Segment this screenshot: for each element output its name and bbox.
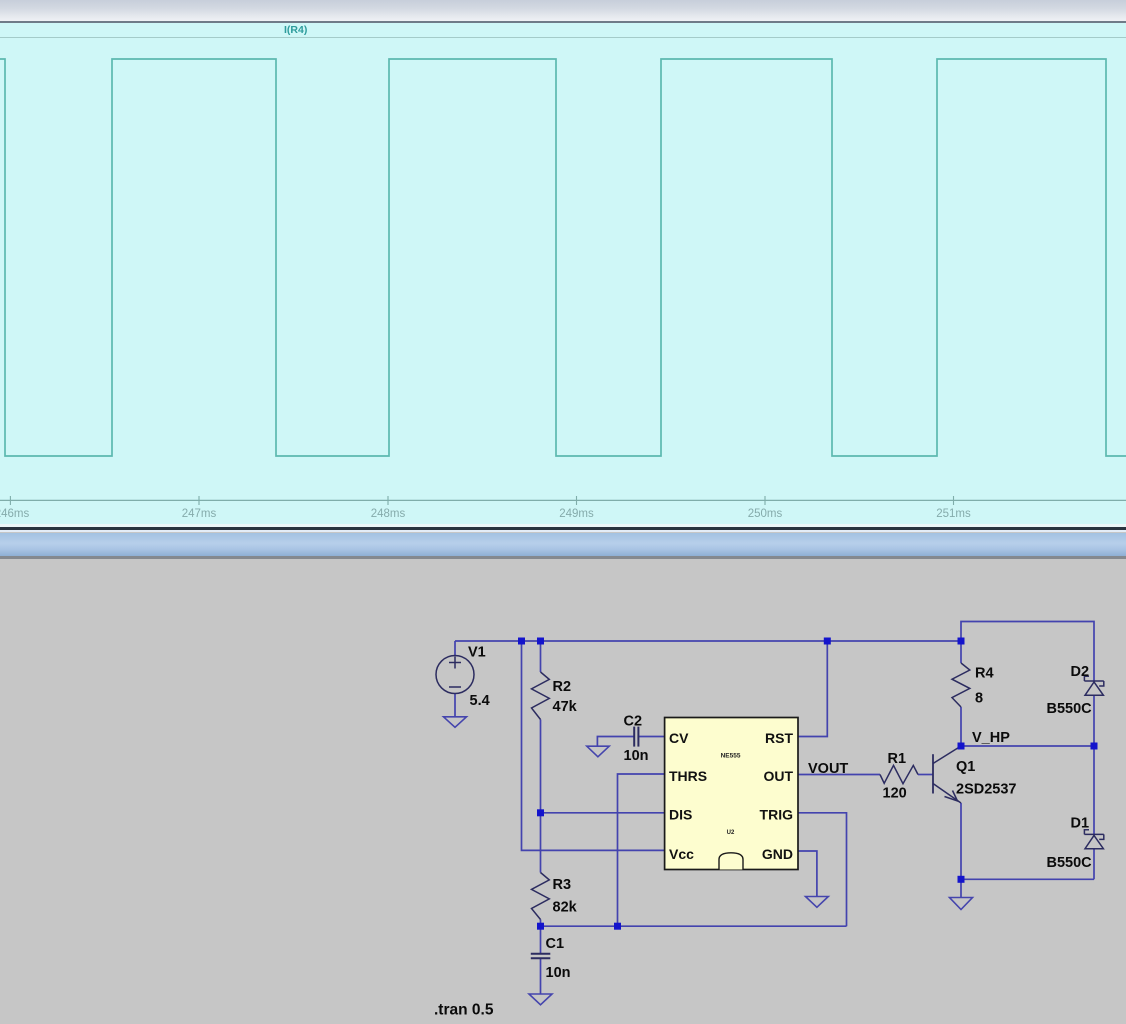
svg-text:B550C: B550C — [1047, 855, 1093, 871]
capacitor C1 — [531, 953, 551, 955]
wire: bottom right rail — [961, 878, 1094, 880]
wire: bottom rail THRS/TRIG — [541, 925, 847, 927]
toolbar dark edge line — [0, 21, 1126, 23]
pane splitter: blue gradient band — [0, 533, 1126, 556]
svg-text:D1: D1 — [1071, 816, 1090, 832]
ground (below V1) — [444, 717, 467, 728]
node RST/rail — [824, 638, 831, 645]
svg-text:10n: 10n — [546, 965, 571, 981]
node junction squares — [518, 638, 1098, 930]
wire: emitter ground stem — [960, 879, 962, 897]
wire: R2 top lead — [540, 641, 542, 672]
resistor R3 — [532, 873, 550, 920]
svg-text:8: 8 — [975, 691, 983, 707]
wire: THRS vertical — [618, 774, 666, 926]
legend separator line — [0, 37, 1126, 38]
pane splitter: dark navy line — [0, 527, 1126, 530]
node V1/rail — [518, 638, 525, 645]
diode D2 — [1084, 676, 1103, 695]
svg-text:C2: C2 — [624, 714, 643, 730]
wire: TRIG wire — [798, 813, 847, 926]
svg-text:CV: CV — [669, 730, 689, 746]
schematic pane background — [0, 559, 1126, 1024]
schematic text labels — [434, 645, 1092, 1019]
wire: D2 bottom lead — [1093, 695, 1095, 746]
svg-text:RST: RST — [765, 730, 793, 746]
svg-text:R4: R4 — [975, 666, 994, 682]
svg-text:248ms: 248ms — [371, 508, 406, 520]
svg-text:NE555: NE555 — [721, 752, 741, 759]
node DIS/R2 — [537, 809, 544, 816]
wire: RST wire — [798, 641, 827, 737]
svg-text:250ms: 250ms — [748, 508, 783, 520]
ground (below C1) — [529, 994, 552, 1005]
capacitor C2 — [633, 727, 635, 747]
svg-text:C1: C1 — [546, 936, 565, 952]
svg-text:Vcc: Vcc — [669, 846, 694, 862]
svg-text:10n: 10n — [624, 748, 649, 764]
svg-text:THRS: THRS — [669, 768, 707, 784]
node THRS/bottom rail — [614, 923, 621, 930]
wire: top rail V1 to R4 — [455, 640, 961, 642]
node R3/C1 bottom rail — [537, 923, 544, 930]
wire: OUT wire to R1 — [798, 774, 880, 776]
chip pin labels — [669, 730, 793, 862]
svg-text:U2: U2 — [727, 830, 735, 836]
transistor Q1 — [932, 754, 934, 793]
wire: R4 bottom lead to V_HP — [960, 707, 962, 746]
svg-text:R1: R1 — [888, 751, 907, 767]
wire: D1 top lead — [1093, 746, 1095, 835]
wire: R3 top lead — [540, 813, 542, 873]
wire: V1 top lead — [454, 641, 456, 656]
svg-text:120: 120 — [883, 786, 907, 802]
svg-text:I(R4): I(R4) — [284, 24, 307, 36]
pane splitter: light line — [0, 524, 1126, 527]
wire: C2 left plate to ground — [597, 737, 634, 747]
svg-text:OUT: OUT — [763, 768, 793, 784]
wire: GND pin wire — [798, 851, 817, 897]
wire: V1 bottom lead — [454, 693, 456, 717]
svg-text:TRIG: TRIG — [760, 807, 794, 823]
node R2/rail — [537, 638, 544, 645]
svg-text:251ms: 251ms — [936, 508, 971, 520]
svg-text:DIS: DIS — [669, 807, 692, 823]
svg-text:246ms: 246ms — [0, 508, 30, 520]
ground (below GND pin) — [806, 897, 829, 908]
svg-text:Q1: Q1 — [956, 759, 975, 775]
svg-text:47k: 47k — [553, 699, 578, 715]
svg-text:GND: GND — [762, 846, 793, 862]
svg-text:2SD2537: 2SD2537 — [956, 782, 1016, 798]
wire: R4 top lead — [960, 641, 962, 663]
svg-text:V_HP: V_HP — [972, 730, 1010, 746]
x axis labels — [0, 508, 971, 520]
node V_HP left — [958, 743, 965, 750]
pane splitter: light blue line — [0, 530, 1126, 533]
IC U2 NE555 body — [665, 718, 798, 870]
ground (below Q1 emitter) — [950, 898, 973, 910]
node R4/rail — [958, 638, 965, 645]
diode D1 — [1084, 830, 1103, 849]
waveform pane background — [0, 23, 1126, 525]
wire: R1 right lead to Q1 base — [918, 774, 933, 776]
svg-text:247ms: 247ms — [182, 508, 217, 520]
resistor R1 — [880, 765, 918, 783]
wire: DIS pin wire — [541, 812, 666, 814]
wire: C1 bottom lead — [540, 959, 542, 994]
node V_HP right — [1091, 743, 1098, 750]
wire: Q1 emitter vertical — [960, 803, 962, 879]
node emitter/bottom right rail — [958, 876, 965, 883]
x axis ticks — [10, 496, 953, 505]
wire: vertical Vcc feed from top rail — [522, 641, 666, 850]
svg-text:R3: R3 — [553, 877, 572, 893]
wire: V_HP rail — [961, 745, 1094, 747]
waveform trace I(R4) — [0, 59, 1126, 456]
svg-text:VOUT: VOUT — [808, 761, 848, 777]
svg-text:5.4: 5.4 — [470, 693, 490, 709]
svg-text:249ms: 249ms — [559, 508, 594, 520]
resistor R4 — [952, 663, 970, 707]
x axis line — [0, 499, 1126, 501]
svg-text:B550C: B550C — [1047, 701, 1093, 717]
wire: D1 bottom lead — [1093, 848, 1095, 879]
wire: top right link to D2 — [961, 622, 1094, 683]
resistor R2 — [532, 672, 550, 720]
svg-text:V1: V1 — [468, 645, 486, 661]
ground (left of C2) — [587, 746, 609, 757]
wire: R2 bottom to DIS node — [540, 720, 542, 813]
wire: R3 bottom to C1 — [540, 920, 542, 954]
pane splitter: bottom dark line — [0, 556, 1126, 559]
toolbar bottom gradient band — [0, 0, 1126, 21]
wire: C2 right plate to CV pin — [638, 736, 665, 738]
svg-text:D2: D2 — [1071, 664, 1090, 680]
svg-text:R2: R2 — [553, 679, 572, 695]
svg-text:82k: 82k — [553, 900, 578, 916]
svg-text:.tran 0.5: .tran 0.5 — [434, 1002, 494, 1019]
voltage source V1 — [436, 656, 474, 694]
